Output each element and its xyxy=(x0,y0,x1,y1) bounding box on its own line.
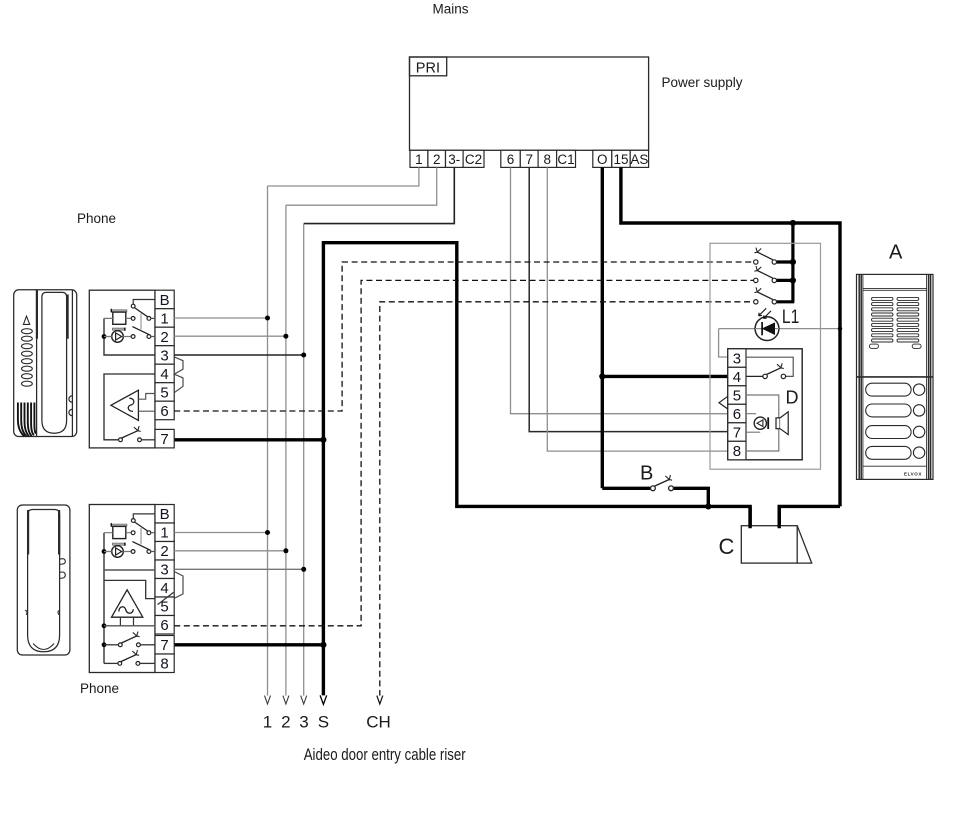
PRI label box xyxy=(410,57,447,76)
PS terminal AS xyxy=(630,150,648,167)
PS terminal 8 xyxy=(538,150,557,167)
PS terminal C2 xyxy=(463,150,484,167)
svg-text:3: 3 xyxy=(160,562,168,579)
svg-text:Phone: Phone xyxy=(80,681,119,696)
PS terminal 7 xyxy=(520,150,538,167)
svg-text:8: 8 xyxy=(544,152,552,167)
svg-text:3-: 3- xyxy=(448,152,460,167)
svg-text:3: 3 xyxy=(299,712,308,731)
wire thick S riser xyxy=(323,243,750,696)
svg-text:D: D xyxy=(786,387,799,407)
arrow riser CH xyxy=(377,696,383,704)
phone 1 handset hooks xyxy=(69,396,72,416)
svg-text:4: 4 xyxy=(160,366,168,383)
phone 1 hook switch blades xyxy=(134,308,147,317)
PS terminal 6 xyxy=(501,150,521,167)
PS terminal 3- xyxy=(446,150,464,167)
D terminal 3 xyxy=(728,349,746,368)
svg-text:7: 7 xyxy=(525,152,533,167)
svg-text:8: 8 xyxy=(733,443,741,460)
door unit outer box xyxy=(710,243,821,469)
svg-text:C1: C1 xyxy=(557,152,574,167)
wire PS-1 to riser 1 xyxy=(268,167,419,186)
junction phone1-2 xyxy=(283,334,288,339)
svg-text:2: 2 xyxy=(160,543,168,560)
wire O to switch B xyxy=(602,487,650,490)
phone 2 contact-to-terminal wires xyxy=(151,533,155,552)
junction L1 right xyxy=(838,326,842,330)
phone 1 terminal 6 xyxy=(155,401,174,420)
svg-text:6: 6 xyxy=(507,152,515,167)
svg-text:3: 3 xyxy=(160,347,168,364)
phone 1 terminal 2 xyxy=(155,327,174,346)
svg-text:B: B xyxy=(160,292,170,309)
junction phone1-1 xyxy=(265,316,270,321)
wire phone2 terminal7 thick xyxy=(174,643,323,646)
wire 15 thick to right vertical xyxy=(621,167,840,506)
phone 1 terminal 4 xyxy=(155,364,174,383)
switch B xyxy=(651,475,674,491)
svg-text:C: C xyxy=(719,534,735,559)
D terminal 4 xyxy=(728,367,746,386)
svg-text:7: 7 xyxy=(160,431,168,448)
svg-text:5: 5 xyxy=(733,387,741,404)
phone 1 contact-to-terminal wires xyxy=(151,318,155,336)
wire riser 3 xyxy=(303,224,305,696)
door panel A speaker grille xyxy=(869,297,921,348)
phone 2 amp base wire to terminal 6 xyxy=(104,625,155,627)
phone 2 buzzer BZ2 xyxy=(112,543,125,558)
lamp L1 wire xyxy=(719,329,839,357)
svg-text:6: 6 xyxy=(160,617,168,634)
phone 2 hook switch blades xyxy=(135,522,148,531)
D terminal 7 xyxy=(728,423,746,442)
wire phone1-1 to riser 1 xyxy=(174,317,267,319)
wire O thick vertical xyxy=(601,167,604,488)
phone 2 terminal 2 xyxy=(155,542,174,561)
arrow riser S xyxy=(320,695,327,704)
junction O branch xyxy=(599,373,605,379)
wire PS-2 to riser 2 xyxy=(286,167,437,205)
PS terminal C1 xyxy=(557,150,576,167)
svg-text:1: 1 xyxy=(415,152,423,167)
junction phone2-3 xyxy=(301,567,306,572)
svg-text:A: A xyxy=(889,241,903,263)
svg-text:O: O xyxy=(597,152,608,167)
speaker unit D inner box xyxy=(728,349,802,460)
wire PS-6 to D-6 xyxy=(511,167,728,413)
junction phone2-1 xyxy=(265,530,270,535)
wire phone1-3 to riser 3 xyxy=(174,354,304,356)
D speaker SP xyxy=(776,412,788,435)
junction phone1 buzzer rail xyxy=(102,334,107,339)
svg-text:2: 2 xyxy=(281,712,290,731)
phone 1 amplifier A1 xyxy=(111,390,138,420)
svg-text:4: 4 xyxy=(160,580,168,597)
phone 2 switch at 7 xyxy=(104,632,155,647)
lamp L1 xyxy=(755,308,779,340)
PS terminal 1 xyxy=(410,150,428,167)
phone 1 electromagnet wires xyxy=(104,317,131,319)
phone 1 amplifier box xyxy=(104,374,155,440)
wire phone2-2 to riser 2 xyxy=(174,550,286,552)
D terminal 6 xyxy=(728,404,746,423)
phone 1 terminal 3 xyxy=(155,346,174,365)
junction phone1-7 on S riser xyxy=(320,437,326,443)
phone 2 terminal 3 xyxy=(155,560,174,579)
phone 2 amplifier box xyxy=(104,580,155,598)
svg-text:1: 1 xyxy=(263,712,272,731)
wire PS-7 to D-7 xyxy=(529,167,728,431)
D microphone notch xyxy=(719,396,728,409)
wire phone2-3 to riser 3 xyxy=(174,568,304,570)
dashed wire CH riser to switch row3 xyxy=(380,302,754,696)
dashed wire phone2-6 to switch row2 xyxy=(174,280,753,625)
D terminal 8 xyxy=(728,441,746,460)
phone 1 terminal 1 xyxy=(155,309,174,328)
wire riser 2 xyxy=(285,205,287,696)
phone 1 handset speaker slots xyxy=(22,329,33,387)
phone 2 handset icon xyxy=(17,505,70,655)
svg-text:CH: CH xyxy=(366,712,391,731)
svg-text:7: 7 xyxy=(733,424,741,441)
button switch row2 xyxy=(754,266,777,283)
PS terminal O xyxy=(593,150,612,167)
D terminal 5 xyxy=(728,386,746,405)
junction phone2 buzzer rail xyxy=(102,549,107,554)
svg-text:2: 2 xyxy=(160,329,168,346)
svg-text:PRI: PRI xyxy=(416,60,440,76)
phone 1 handset fan lines xyxy=(18,403,36,437)
svg-text:1: 1 xyxy=(160,310,168,327)
junction phone2-2 xyxy=(283,548,288,553)
power supply box PS xyxy=(410,57,649,150)
phone 2 switch at 8 xyxy=(104,650,155,665)
phone 2 cord bracket xyxy=(174,572,183,599)
wire phone2-1 to riser 1 xyxy=(174,532,267,534)
phone 1 hook switch B wire xyxy=(133,300,155,305)
svg-text:L1: L1 xyxy=(782,307,800,328)
phone 2 amp feet xyxy=(120,617,133,626)
phone 1 terminal 7 xyxy=(155,429,174,448)
D microphone wires xyxy=(746,414,760,433)
junction phone2-7 on S riser xyxy=(320,642,326,648)
phone 1 circuit box xyxy=(89,290,155,448)
svg-text:B: B xyxy=(640,463,653,485)
wire riser 1 xyxy=(267,186,269,696)
phone 1 buzzer wires xyxy=(104,336,131,338)
phone 1 terminal 5 xyxy=(155,383,174,402)
phone 1 terminal B xyxy=(155,290,174,309)
junction switch row1 xyxy=(790,259,796,265)
arrow riser 1 xyxy=(265,696,271,704)
arrow riser 3 xyxy=(301,696,307,704)
phone 2 terminal 1 xyxy=(155,523,174,542)
D switch at 4 xyxy=(746,363,786,378)
phone 1 handset icon xyxy=(14,290,77,437)
phone 1 buzzer BZ1 xyxy=(112,328,125,343)
phone 2 rail to terminal 3 xyxy=(104,569,155,571)
svg-text:8: 8 xyxy=(160,656,168,673)
junction phone2 amp rail xyxy=(102,623,107,628)
wire phone1-2 to riser 2 xyxy=(174,335,286,337)
wire thick C right leg xyxy=(779,506,840,528)
svg-text:7: 7 xyxy=(160,637,168,654)
arrow riser 2 xyxy=(283,696,289,704)
svg-text:C2: C2 xyxy=(465,152,482,167)
svg-text:S: S xyxy=(318,712,329,731)
junction B leg on loop xyxy=(705,503,711,509)
svg-text:6: 6 xyxy=(733,406,741,423)
D microphone MIC xyxy=(754,417,769,429)
lock release C box xyxy=(741,506,811,563)
junction switch row2 xyxy=(790,277,796,283)
svg-text:ELVOX: ELVOX xyxy=(904,471,922,476)
svg-text:15: 15 xyxy=(613,152,628,167)
svg-text:1: 1 xyxy=(160,525,168,542)
phone 2 hook switch contacts xyxy=(131,519,151,554)
wire thick lamp-switch vertical xyxy=(777,223,795,302)
phone 1 electromagnet E1 xyxy=(111,309,127,325)
phone 2 terminal B xyxy=(155,505,174,524)
phone 2 electromagnet wires xyxy=(104,532,131,534)
door panel A outer xyxy=(857,274,934,479)
wire PS-8 to D-8 xyxy=(547,167,728,451)
svg-text:B: B xyxy=(160,506,170,523)
svg-text:5: 5 xyxy=(160,384,168,401)
phone 2 circuit box xyxy=(89,505,155,673)
phone 2 terminal 8 xyxy=(155,654,174,673)
phone 2 electromagnet E2 xyxy=(111,523,127,539)
button switch row1 xyxy=(754,248,777,265)
svg-text:Power supply: Power supply xyxy=(662,75,743,90)
svg-text:AS: AS xyxy=(630,152,648,167)
svg-text:6: 6 xyxy=(160,403,168,420)
D terminal3 link wire xyxy=(746,357,793,376)
svg-text:4: 4 xyxy=(733,369,741,386)
D speaker wire 5 to 8 xyxy=(746,395,779,451)
phone 2 buzzer wires xyxy=(104,551,131,553)
phone 1 left rail to terminal 3 xyxy=(104,318,155,355)
svg-text:2: 2 xyxy=(433,152,441,167)
door panel A buttons xyxy=(866,383,925,459)
dashed wire phone1-6 to switch row1 xyxy=(174,262,753,411)
wire phone1 terminal7 thick xyxy=(174,438,323,441)
phone 1 cord bracket xyxy=(174,357,183,393)
phone 1 amp output wires xyxy=(138,394,155,400)
phone 2 terminal 4 xyxy=(155,579,174,598)
phone 1 hook switch contacts xyxy=(131,304,151,338)
junction phone2 switch7 rail xyxy=(102,642,107,647)
svg-text:3: 3 xyxy=(733,350,741,367)
phone 2 cord diagonal xyxy=(158,592,174,604)
phone 2 terminal 5 xyxy=(155,597,174,616)
phone 2 amplifier A2 xyxy=(112,590,143,617)
svg-text:Aideo door entry cable riser: Aideo door entry cable riser xyxy=(304,745,466,764)
phone 2 hook switch B wire xyxy=(133,514,155,519)
PS terminal 15 xyxy=(612,150,630,167)
phone 2 handset hooks xyxy=(25,559,65,615)
PS terminal 2 xyxy=(428,150,446,167)
junction 15 top xyxy=(790,220,796,226)
wire O branch to D-4 xyxy=(602,375,728,378)
junction phone1-3 xyxy=(301,353,306,358)
phone 2 terminal 6 xyxy=(155,616,174,635)
svg-text:Mains: Mains xyxy=(433,2,469,17)
phone 2 terminal 7 xyxy=(155,636,174,655)
phone 2 left rail xyxy=(103,533,105,664)
svg-text:Phone: Phone xyxy=(77,211,116,226)
button switch row3 xyxy=(754,287,777,304)
phone 1 hook contact switch at 7 xyxy=(119,426,155,441)
wire PS-3- to riser 3 xyxy=(304,167,455,223)
wire switch B to loop xyxy=(674,488,709,506)
